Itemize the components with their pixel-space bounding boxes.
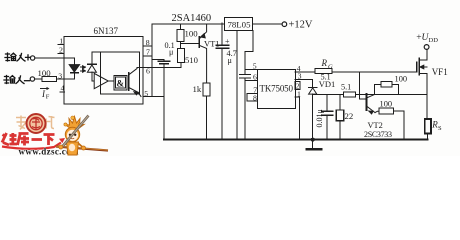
svg-text:510: 510 [185,55,198,65]
svg-text:3: 3 [298,72,302,81]
svg-text:TK75050: TK75050 [260,84,294,94]
svg-text:μ: μ [228,56,233,65]
svg-text:VT1: VT1 [204,39,220,49]
svg-text:6N137: 6N137 [94,26,119,36]
svg-text:8: 8 [146,38,150,47]
svg-text:+12V: +12V [289,20,313,31]
svg-text:100: 100 [380,99,393,108]
svg-text:100: 100 [395,75,408,84]
svg-text:DD: DD [429,37,439,44]
svg-text:VT2: VT2 [368,121,383,130]
svg-text:μ: μ [169,48,174,57]
svg-text:S: S [438,125,442,132]
svg-text:8: 8 [253,93,257,102]
svg-text:0.01μ: 0.01μ [315,109,324,127]
svg-text:5: 5 [253,61,257,70]
svg-text:3: 3 [58,72,62,81]
svg-text:2SA1460: 2SA1460 [172,13,212,24]
svg-text:4: 4 [61,84,65,93]
svg-text:6: 6 [253,73,257,82]
svg-text:VF1: VF1 [432,67,448,77]
svg-text:5.1: 5.1 [341,83,351,92]
svg-text:G: G [328,64,333,71]
svg-text:F: F [46,94,50,101]
svg-text:100: 100 [38,68,52,78]
svg-text:VD1: VD1 [319,79,336,89]
svg-text:1: 1 [59,37,63,46]
svg-text:&: & [117,79,125,89]
svg-text:2: 2 [59,46,63,55]
svg-text:78L05: 78L05 [228,20,252,30]
svg-text:7: 7 [146,48,150,57]
svg-text:1: 1 [297,89,301,98]
svg-text:+: + [225,37,230,46]
svg-text:22: 22 [345,111,354,121]
svg-text:5: 5 [144,89,148,98]
svg-text:6: 6 [146,67,150,76]
svg-text:R: R [321,58,328,68]
svg-text:100: 100 [185,29,199,39]
svg-text:1k: 1k [193,84,202,94]
svg-text:2SC3733: 2SC3733 [364,130,392,139]
